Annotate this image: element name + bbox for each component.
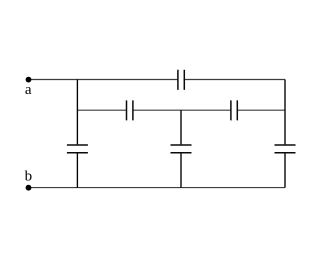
svg-text:b: b [25,168,33,184]
svg-text:a: a [25,82,32,98]
